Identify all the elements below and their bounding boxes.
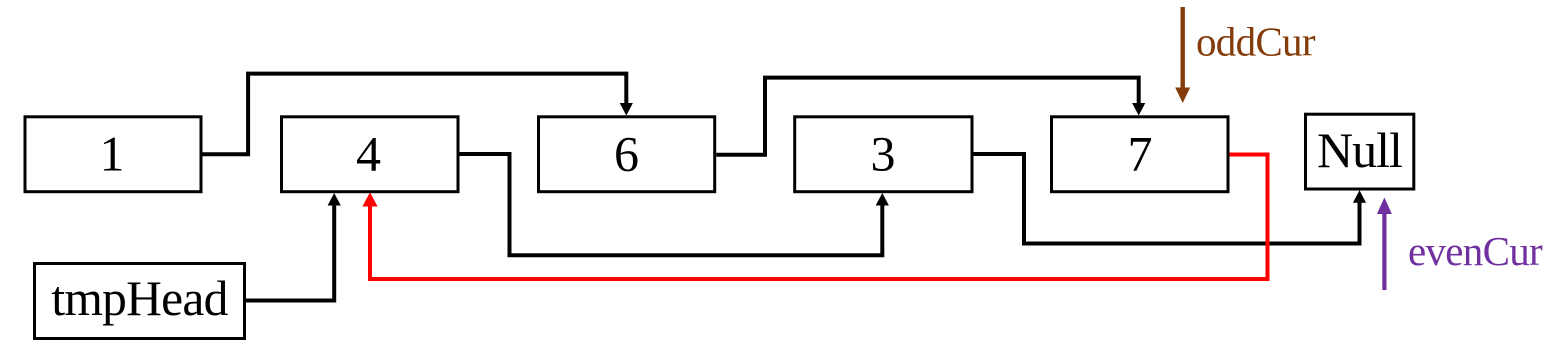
svg-text:Null: Null [1317, 122, 1402, 178]
svg-text:evenCur: evenCur [1408, 228, 1543, 274]
svg-text:6: 6 [614, 125, 639, 181]
svg-text:4: 4 [356, 125, 381, 181]
svg-text:7: 7 [1128, 125, 1153, 181]
svg-text:3: 3 [871, 125, 896, 181]
svg-text:oddCur: oddCur [1196, 19, 1316, 65]
svg-text:tmpHead: tmpHead [51, 271, 228, 326]
svg-text:1: 1 [100, 125, 125, 181]
